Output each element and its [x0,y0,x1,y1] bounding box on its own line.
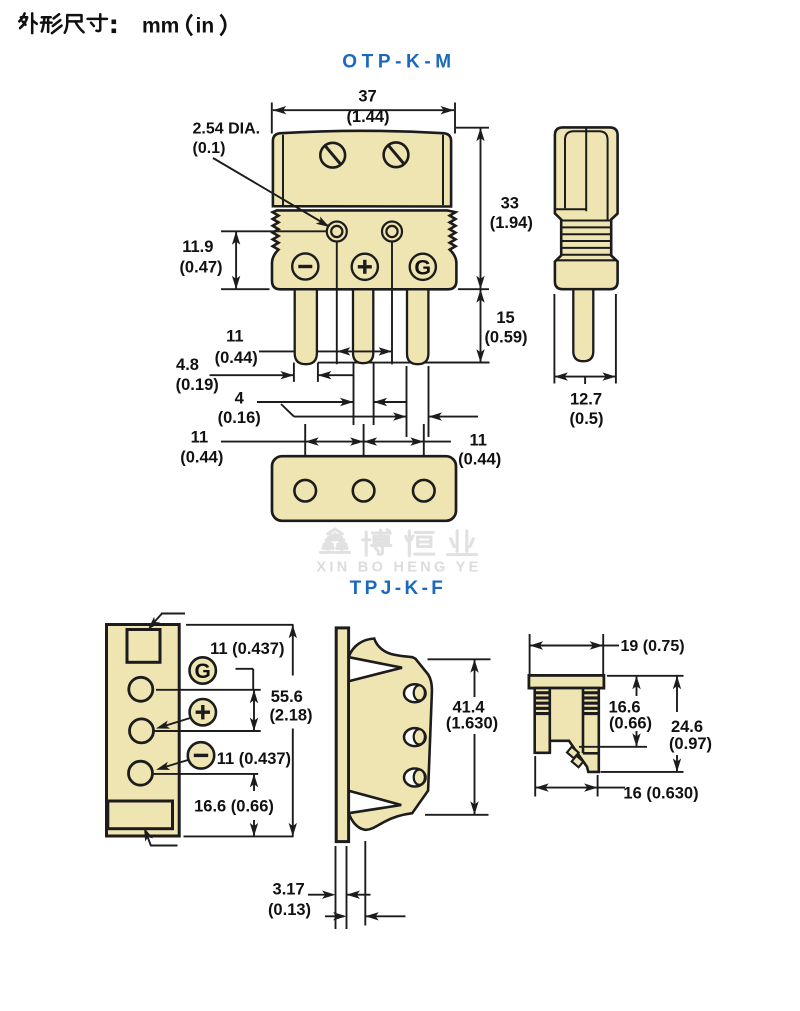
svg-text:(0.13): (0.13) [268,901,311,919]
TPJ bottom slot [108,801,173,829]
TPJ profile pin oval 3 [404,769,426,787]
TPJ end view cap [529,675,604,688]
bottom view dim line [221,437,451,445]
dim 24.6 (0.97) [601,676,713,772]
OTP pin right [407,289,428,364]
dim 16.6 (0.66) right [579,676,684,747]
TPJ end view ribs [535,691,599,715]
bottom view center extension lines [305,424,424,491]
svg-text:24.6: 24.6 [671,718,703,736]
svg-text:(0.97): (0.97) [669,735,712,753]
svg-text:(0.16): (0.16) [218,409,261,427]
dim 4.8 (0.19) pin width [176,356,354,394]
OTP pin hole left (2.54 dia) [327,222,347,242]
dim 11 (0.437) upper [210,640,284,731]
svg-text:11 (0.437): 11 (0.437) [217,750,291,768]
dim 33 (1.94) [456,128,533,290]
title TPJ-K-F [350,578,447,599]
leader minus to bottom hole [156,760,189,770]
dim 15 (0.59) [429,289,528,362]
svg-text:16 (0.630): 16 (0.630) [623,785,698,803]
leader plus to middle hole [156,718,191,729]
leader arrow to bottom slot [144,828,178,846]
svg-text:(0.59): (0.59) [484,329,527,347]
label 2.54 DIA with leader [193,121,330,228]
leader line 11 (0.44) [259,350,337,352]
dim 4 (0.16) pin width [218,363,478,437]
svg-text:3.17: 3.17 [273,880,305,898]
svg-text:(0.44): (0.44) [215,349,258,367]
svg-text:(0.44): (0.44) [458,451,501,469]
svg-text:11: 11 [469,432,486,450]
TPJ end view body [535,688,599,772]
svg-text:19 (0.75): 19 (0.75) [621,638,685,655]
svg-text:G: G [195,660,211,683]
bottom plate hole 1 [294,480,316,502]
title OTP-K-M [342,52,455,73]
TPJ connector profile [349,639,432,830]
leader arrow to square hole [148,613,185,630]
svg-text:(0.47): (0.47) [179,259,222,277]
dim 11.9 (0.47) [179,231,327,289]
bottom plate hole 2 [353,480,375,502]
svg-text:(0.19): (0.19) [176,376,219,394]
svg-text:(2.18): (2.18) [269,707,312,725]
dim 11 (0.44) bottom right label [458,432,501,469]
bottom plate hole 3 [413,480,435,502]
OTP pin hole right [382,222,402,242]
dim 11 (0.437) lower [217,750,291,768]
svg-text:XIN BO HENG YE: XIN BO HENG YE [316,560,481,576]
svg-text:2.54 DIA.: 2.54 DIA. [193,121,261,138]
svg-text:37: 37 [358,88,376,106]
watermark latin [316,560,481,576]
dim 12.7 (0.5) [554,294,616,428]
svg-text:12.7: 12.7 [570,391,602,409]
svg-text:11: 11 [226,328,243,346]
TPJ plus symbol [190,699,216,725]
svg-text:(0.1): (0.1) [193,140,226,157]
side view threads [562,221,611,255]
svg-text:(0.5): (0.5) [570,410,604,428]
dim 37 (1.44) width [272,88,455,134]
extension line hole right [391,241,393,364]
svg-text:in: in [196,15,215,38]
OTP front view cap [273,131,451,207]
svg-text:16.6 (0.66): 16.6 (0.66) [194,798,274,816]
svg-text:(0.44): (0.44) [180,449,223,467]
OTP cap screw left [320,143,345,168]
tick line pins bottom (15 dim) [318,362,490,364]
svg-text:(0.66): (0.66) [609,715,652,733]
svg-text:11: 11 [191,429,208,447]
dim 3.17 (0.13) [268,841,406,929]
svg-text:11 (0.437): 11 (0.437) [210,640,284,658]
svg-text:15: 15 [496,309,514,327]
TPJ minus symbol [188,742,214,768]
TPJ latch teeth [567,747,583,767]
side view inner lines [555,127,608,219]
OTP G terminal symbol [410,254,436,280]
OTP side view pin [573,289,593,361]
TPJ profile pin oval 1 [404,684,426,702]
side view collar line [556,259,617,261]
dim 11 (0.44) bottom left label [180,429,223,467]
OTP pin left [295,289,317,364]
OTP bottom view plate [272,456,456,521]
dim 55.6 (2.18) [184,625,313,837]
svg-text:(1.94): (1.94) [490,214,533,232]
OTP cap screw right [384,142,409,167]
dim 19 (0.75) [530,634,685,676]
TPJ side panel [336,628,348,842]
header text 外形尺寸 (CJK drawn) [19,13,107,33]
TPJ hole bottom [129,761,153,785]
svg-text:TPJ-K-F: TPJ-K-F [350,578,447,599]
svg-text:4.8: 4.8 [176,356,199,374]
TPJ G symbol [190,657,216,683]
TPJ profile pin oval 2 [404,728,426,746]
TPJ square hole [127,630,160,663]
svg-text:11.9: 11.9 [182,238,213,256]
svg-text:OTP-K-M: OTP-K-M [342,52,455,73]
dim 11 (0.44) hole spacing [215,328,392,368]
header colon + mm (in) [112,15,226,38]
extension line hole left [336,241,338,364]
TPJ panel front view [107,625,180,837]
svg-text:mm: mm [142,15,179,38]
OTP front view ribbed body [272,210,456,289]
watermark CJK 鑫博恒业 [321,529,477,556]
OTP side view body [555,127,618,289]
svg-text:G: G [414,256,431,280]
dim 16.6 (0.66) left [194,774,274,837]
svg-text:55.6: 55.6 [271,688,303,706]
TPJ hole top [129,677,153,701]
svg-text:4: 4 [235,390,245,408]
dim 16 (0.630) [535,756,698,803]
TPJ hole middle [130,719,154,743]
svg-text:(1.44): (1.44) [346,108,389,126]
TPJ hole reference lines [153,669,261,774]
OTP pin middle [353,289,373,363]
OTP minus terminal symbol [292,253,318,279]
OTP plus terminal symbol [352,254,378,280]
dim 41.4 (1.630) [425,659,498,815]
svg-text:33: 33 [501,195,519,213]
svg-text:(1.630): (1.630) [446,715,498,733]
